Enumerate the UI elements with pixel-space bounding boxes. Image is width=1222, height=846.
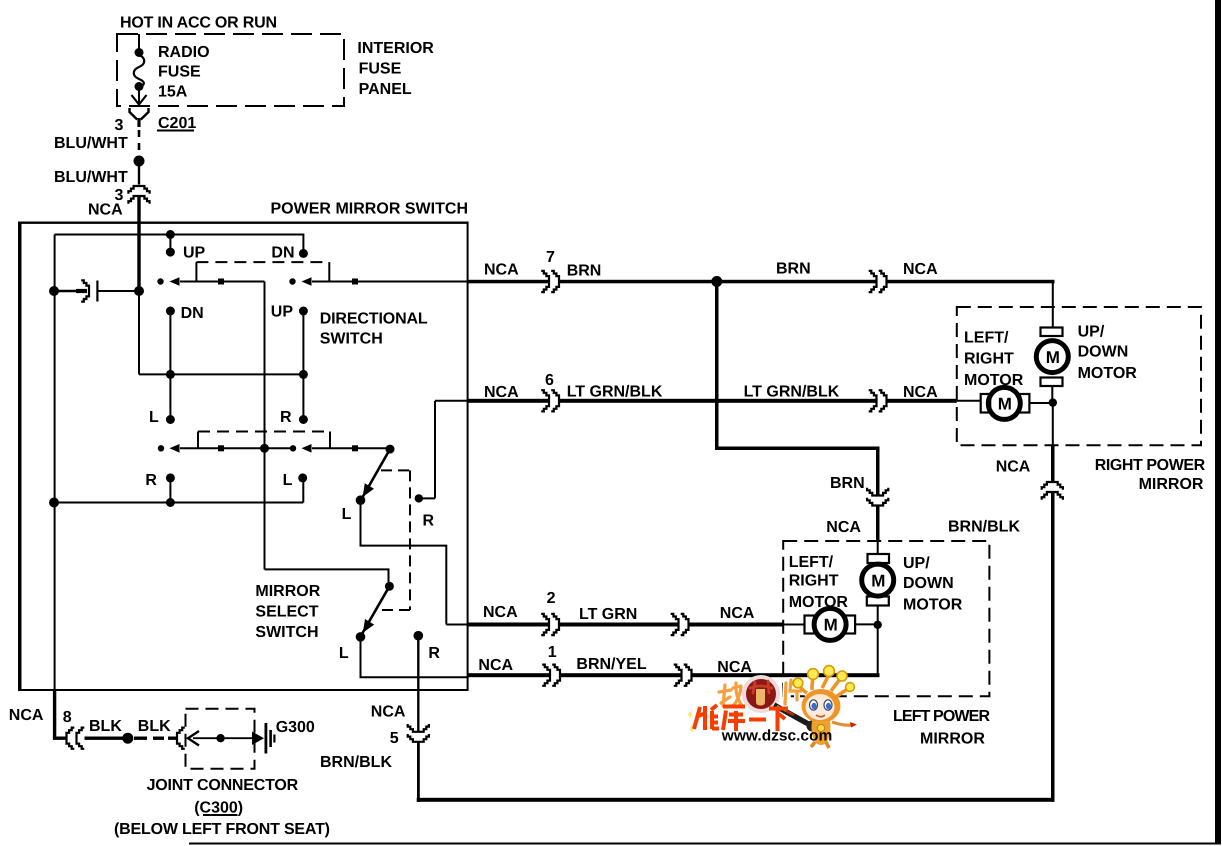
- svg-text:LEFT/: LEFT/: [789, 554, 834, 571]
- svg-text:LT GRN/BLK: LT GRN/BLK: [567, 384, 663, 401]
- svg-text:DIRECTIONAL: DIRECTIONAL: [320, 311, 428, 328]
- svg-text:L: L: [339, 645, 349, 662]
- svg-text:MOTOR: MOTOR: [964, 372, 1024, 389]
- svg-text:MIRROR: MIRROR: [255, 583, 320, 600]
- svg-text:DOWN: DOWN: [903, 575, 954, 592]
- svg-text:UP/: UP/: [903, 555, 930, 572]
- svg-text:6: 6: [545, 372, 554, 389]
- svg-text:JOINT CONNECTOR: JOINT CONNECTOR: [147, 777, 299, 794]
- svg-text:UP/: UP/: [1078, 324, 1105, 341]
- svg-text:RIGHT: RIGHT: [964, 351, 1014, 368]
- svg-text:M: M: [824, 616, 838, 635]
- svg-text:FUSE: FUSE: [359, 61, 402, 78]
- svg-text:MOTOR: MOTOR: [903, 597, 963, 614]
- svg-text:RADIO: RADIO: [158, 44, 210, 61]
- svg-text:LEFT/: LEFT/: [964, 330, 1009, 347]
- svg-text:NCA: NCA: [478, 657, 513, 674]
- svg-text:NCA: NCA: [88, 202, 123, 219]
- svg-text:15A: 15A: [158, 84, 188, 101]
- svg-text:(BELOW LEFT FRONT SEAT): (BELOW LEFT FRONT SEAT): [114, 821, 330, 838]
- svg-text:UP: UP: [271, 304, 294, 321]
- svg-text:BLU/WHT: BLU/WHT: [54, 169, 128, 186]
- svg-text:7: 7: [546, 249, 555, 266]
- svg-text:NCA: NCA: [717, 659, 752, 676]
- svg-text:1: 1: [548, 644, 557, 661]
- svg-text:SWITCH: SWITCH: [320, 331, 383, 348]
- svg-text:R: R: [423, 513, 435, 530]
- svg-text:NCA: NCA: [9, 707, 44, 724]
- svg-text:DN: DN: [271, 245, 294, 262]
- svg-text:L: L: [283, 472, 293, 489]
- svg-text:DOWN: DOWN: [1078, 344, 1129, 361]
- svg-text:M: M: [871, 572, 885, 591]
- svg-text:3: 3: [115, 117, 124, 134]
- svg-text:NCA: NCA: [483, 604, 518, 621]
- svg-text:BLK: BLK: [89, 718, 122, 735]
- svg-text:UP: UP: [183, 245, 206, 262]
- svg-text:PANEL: PANEL: [359, 81, 412, 98]
- svg-text:8: 8: [63, 709, 72, 726]
- svg-text:NCA: NCA: [826, 519, 861, 536]
- svg-text:NCA: NCA: [903, 384, 938, 401]
- svg-text:L: L: [342, 506, 352, 523]
- svg-text:BLU/WHT: BLU/WHT: [54, 135, 128, 152]
- svg-text:INTERIOR: INTERIOR: [357, 40, 434, 57]
- svg-text:BRN: BRN: [830, 475, 865, 492]
- svg-text:RIGHT POWER: RIGHT POWER: [1095, 457, 1206, 474]
- svg-text:www.dzsc.com: www.dzsc.com: [721, 728, 833, 745]
- svg-text:HOT IN ACC OR RUN: HOT IN ACC OR RUN: [120, 15, 277, 32]
- svg-text:M: M: [998, 395, 1012, 414]
- svg-text:MOTOR: MOTOR: [1078, 365, 1138, 382]
- svg-text:NCA: NCA: [484, 384, 519, 401]
- svg-text:BRN/BLK: BRN/BLK: [948, 519, 1020, 536]
- svg-text:DN: DN: [181, 305, 204, 322]
- svg-text:LEFT POWER: LEFT POWER: [893, 708, 990, 725]
- svg-text:SELECT: SELECT: [255, 604, 318, 621]
- svg-text:MIRROR: MIRROR: [1139, 476, 1204, 493]
- svg-text:R: R: [428, 645, 440, 662]
- svg-text:NCA: NCA: [903, 261, 938, 278]
- svg-text:BLK: BLK: [138, 718, 171, 735]
- svg-text:(C300): (C300): [194, 800, 243, 817]
- svg-text:BRN/YEL: BRN/YEL: [576, 656, 646, 673]
- svg-text:NCA: NCA: [371, 704, 406, 721]
- svg-text:BRN/BLK: BRN/BLK: [320, 754, 392, 771]
- svg-text:RIGHT: RIGHT: [789, 573, 839, 590]
- svg-text:BRN: BRN: [776, 261, 811, 278]
- svg-text:M: M: [1046, 348, 1060, 367]
- svg-text:MOTOR: MOTOR: [789, 594, 849, 611]
- svg-text:5: 5: [390, 730, 399, 747]
- svg-text:POWER MIRROR SWITCH: POWER MIRROR SWITCH: [271, 201, 469, 218]
- svg-text:C201: C201: [158, 115, 196, 132]
- svg-text:SWITCH: SWITCH: [255, 624, 318, 641]
- svg-text:LT GRN: LT GRN: [579, 606, 637, 623]
- svg-text:R: R: [280, 409, 292, 426]
- svg-text:LT GRN/BLK: LT GRN/BLK: [744, 384, 840, 401]
- svg-text:NCA: NCA: [720, 605, 755, 622]
- svg-text:NCA: NCA: [484, 262, 519, 279]
- svg-text:BRN: BRN: [567, 263, 602, 280]
- svg-text:FUSE: FUSE: [158, 64, 201, 81]
- svg-text:G300: G300: [276, 719, 315, 736]
- svg-text:2: 2: [547, 590, 556, 607]
- svg-text:R: R: [145, 472, 157, 489]
- svg-text:MIRROR: MIRROR: [920, 731, 985, 748]
- svg-text:L: L: [149, 409, 159, 426]
- svg-text:NCA: NCA: [996, 459, 1031, 476]
